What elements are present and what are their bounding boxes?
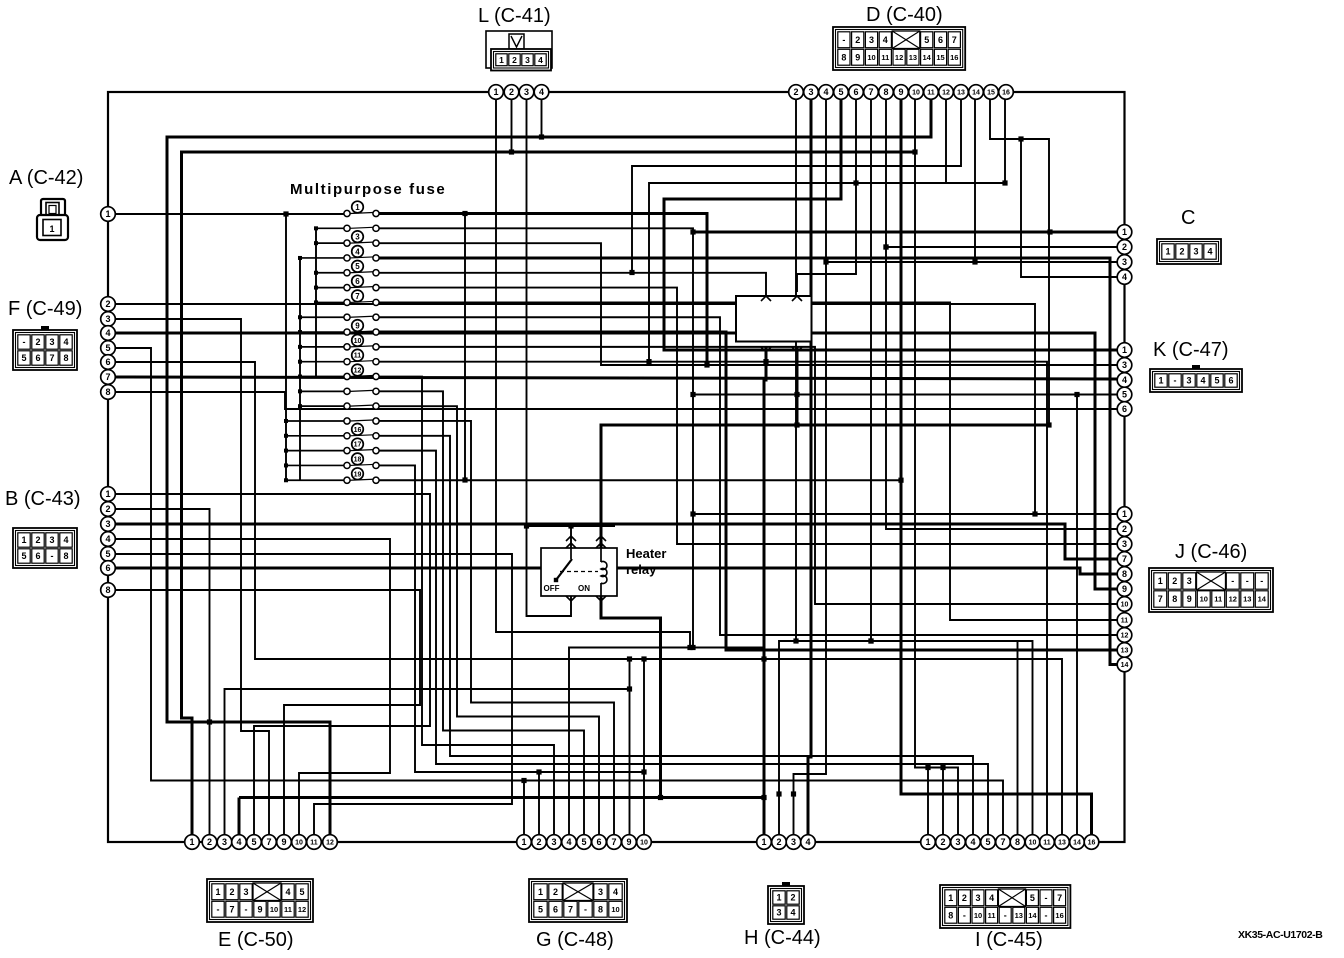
svg-text:1: 1 bbox=[1165, 247, 1170, 257]
svg-text:7: 7 bbox=[1158, 594, 1163, 604]
svg-text:4: 4 bbox=[1200, 376, 1205, 386]
svg-text:3: 3 bbox=[955, 837, 960, 847]
svg-text:10: 10 bbox=[354, 338, 362, 345]
svg-text:4: 4 bbox=[539, 87, 544, 97]
svg-text:16: 16 bbox=[354, 427, 362, 434]
svg-text:2: 2 bbox=[1179, 247, 1184, 257]
svg-text:-: - bbox=[584, 904, 587, 914]
svg-text:17: 17 bbox=[354, 442, 362, 449]
svg-text:6: 6 bbox=[105, 563, 110, 573]
svg-text:6: 6 bbox=[1228, 376, 1233, 386]
svg-text:3: 3 bbox=[1122, 257, 1127, 267]
svg-text:8: 8 bbox=[841, 52, 846, 62]
svg-text:1: 1 bbox=[1158, 576, 1163, 586]
svg-text:5: 5 bbox=[1214, 376, 1219, 386]
svg-text:18: 18 bbox=[354, 456, 362, 463]
svg-text:11: 11 bbox=[1214, 595, 1222, 604]
svg-text:1: 1 bbox=[493, 87, 498, 97]
svg-text:6: 6 bbox=[553, 904, 558, 914]
svg-text:1: 1 bbox=[215, 887, 220, 897]
svg-text:4: 4 bbox=[1122, 272, 1127, 282]
svg-text:6: 6 bbox=[938, 35, 943, 45]
svg-text:7: 7 bbox=[868, 87, 873, 97]
svg-text:G (C-48): G (C-48) bbox=[536, 929, 614, 951]
svg-text:14: 14 bbox=[1028, 911, 1037, 920]
svg-text:3: 3 bbox=[1122, 360, 1127, 370]
svg-text:2: 2 bbox=[105, 299, 110, 309]
svg-text:5: 5 bbox=[251, 837, 256, 847]
svg-text:1: 1 bbox=[776, 893, 781, 903]
svg-text:4: 4 bbox=[355, 247, 360, 256]
svg-text:10: 10 bbox=[1029, 840, 1037, 847]
svg-text:7: 7 bbox=[105, 372, 110, 382]
svg-text:7: 7 bbox=[1000, 837, 1005, 847]
svg-text:5: 5 bbox=[538, 904, 543, 914]
svg-text:3: 3 bbox=[105, 314, 110, 324]
svg-text:ON: ON bbox=[578, 584, 590, 593]
svg-text:8: 8 bbox=[1015, 837, 1020, 847]
svg-text:2: 2 bbox=[1122, 242, 1127, 252]
svg-text:12: 12 bbox=[942, 90, 950, 97]
svg-text:14: 14 bbox=[1258, 595, 1267, 604]
svg-text:2: 2 bbox=[35, 337, 40, 347]
svg-text:3: 3 bbox=[1122, 539, 1127, 549]
svg-text:10: 10 bbox=[912, 90, 920, 97]
svg-text:11: 11 bbox=[1043, 840, 1051, 847]
svg-text:5: 5 bbox=[1030, 893, 1035, 903]
svg-text:Multipurpose fuse: Multipurpose fuse bbox=[290, 181, 446, 198]
svg-text:11: 11 bbox=[1121, 618, 1129, 625]
svg-text:1: 1 bbox=[925, 837, 930, 847]
svg-text:A (C-42): A (C-42) bbox=[9, 167, 83, 189]
svg-text:10: 10 bbox=[974, 911, 982, 920]
svg-text:6: 6 bbox=[355, 277, 360, 286]
svg-text:3: 3 bbox=[551, 837, 556, 847]
svg-text:4: 4 bbox=[63, 535, 68, 545]
svg-text:16: 16 bbox=[950, 53, 958, 62]
svg-text:9: 9 bbox=[355, 321, 360, 330]
svg-text:2: 2 bbox=[509, 87, 514, 97]
svg-text:9: 9 bbox=[898, 87, 903, 97]
svg-text:5: 5 bbox=[581, 837, 586, 847]
svg-text:16: 16 bbox=[1088, 840, 1096, 847]
svg-text:2: 2 bbox=[776, 837, 781, 847]
svg-text:3: 3 bbox=[524, 87, 529, 97]
svg-text:2: 2 bbox=[229, 887, 234, 897]
svg-text:relay: relay bbox=[626, 562, 657, 577]
svg-text:2: 2 bbox=[1122, 524, 1127, 534]
svg-text:4: 4 bbox=[63, 337, 68, 347]
svg-text:5: 5 bbox=[985, 837, 990, 847]
svg-text:1: 1 bbox=[105, 209, 110, 219]
svg-text:9: 9 bbox=[855, 52, 860, 62]
svg-text:1: 1 bbox=[105, 489, 110, 499]
svg-text:3: 3 bbox=[105, 519, 110, 529]
svg-text:5: 5 bbox=[299, 887, 304, 897]
svg-text:2: 2 bbox=[536, 837, 541, 847]
svg-text:3: 3 bbox=[1187, 576, 1192, 586]
svg-text:9: 9 bbox=[1187, 594, 1192, 604]
svg-text:1: 1 bbox=[1122, 345, 1127, 355]
svg-text:5: 5 bbox=[105, 343, 110, 353]
svg-text:5: 5 bbox=[21, 551, 26, 561]
svg-text:2: 2 bbox=[512, 55, 517, 65]
svg-text:H (C-44): H (C-44) bbox=[744, 927, 821, 949]
svg-text:15: 15 bbox=[987, 90, 995, 97]
svg-text:5: 5 bbox=[21, 353, 26, 363]
svg-text:B (C-43): B (C-43) bbox=[5, 488, 81, 510]
svg-text:-: - bbox=[23, 337, 26, 347]
svg-text:8: 8 bbox=[105, 585, 110, 595]
svg-text:3: 3 bbox=[222, 837, 227, 847]
svg-text:2: 2 bbox=[790, 893, 795, 903]
svg-text:2: 2 bbox=[207, 837, 212, 847]
svg-text:14: 14 bbox=[972, 90, 980, 97]
svg-text:6: 6 bbox=[105, 357, 110, 367]
svg-text:4: 4 bbox=[285, 887, 290, 897]
svg-text:19: 19 bbox=[354, 471, 362, 478]
svg-text:2: 2 bbox=[962, 893, 967, 903]
svg-text:-: - bbox=[963, 910, 966, 920]
svg-text:7: 7 bbox=[1122, 554, 1127, 564]
svg-text:9: 9 bbox=[1122, 584, 1127, 594]
svg-text:J (C-46): J (C-46) bbox=[1175, 541, 1247, 563]
svg-text:7: 7 bbox=[49, 353, 54, 363]
svg-text:13: 13 bbox=[1015, 911, 1023, 920]
svg-text:3: 3 bbox=[808, 87, 813, 97]
svg-text:4: 4 bbox=[989, 893, 994, 903]
svg-text:L (C-41): L (C-41) bbox=[478, 5, 551, 27]
svg-text:7: 7 bbox=[611, 837, 616, 847]
svg-text:8: 8 bbox=[63, 551, 68, 561]
svg-text:OFF: OFF bbox=[544, 584, 560, 593]
svg-text:-: - bbox=[217, 904, 220, 914]
svg-text:4: 4 bbox=[1122, 375, 1127, 385]
svg-text:2: 2 bbox=[793, 87, 798, 97]
svg-text:-: - bbox=[1004, 910, 1007, 920]
svg-text:-: - bbox=[1231, 576, 1234, 586]
svg-text:8: 8 bbox=[1172, 594, 1177, 604]
svg-text:7: 7 bbox=[229, 904, 234, 914]
svg-text:-: - bbox=[245, 904, 248, 914]
svg-text:13: 13 bbox=[909, 53, 917, 62]
svg-text:12: 12 bbox=[298, 905, 306, 914]
svg-text:3: 3 bbox=[355, 233, 360, 242]
svg-text:3: 3 bbox=[869, 35, 874, 45]
svg-text:12: 12 bbox=[326, 840, 334, 847]
svg-text:1: 1 bbox=[761, 837, 766, 847]
svg-text:2: 2 bbox=[855, 35, 860, 45]
svg-text:XK35-AC-U1702-B: XK35-AC-U1702-B bbox=[1238, 929, 1323, 941]
svg-text:2: 2 bbox=[553, 887, 558, 897]
svg-text:4: 4 bbox=[883, 35, 888, 45]
svg-text:3: 3 bbox=[243, 887, 248, 897]
svg-text:10: 10 bbox=[1121, 602, 1129, 609]
svg-text:3: 3 bbox=[1186, 376, 1191, 386]
svg-text:13: 13 bbox=[1058, 840, 1066, 847]
svg-text:1: 1 bbox=[521, 837, 526, 847]
svg-text:10: 10 bbox=[867, 53, 875, 62]
svg-text:1: 1 bbox=[499, 55, 504, 65]
svg-text:3: 3 bbox=[49, 337, 54, 347]
svg-text:6: 6 bbox=[35, 551, 40, 561]
svg-text:2: 2 bbox=[35, 535, 40, 545]
svg-text:C: C bbox=[1181, 207, 1195, 229]
svg-text:8: 8 bbox=[948, 910, 953, 920]
svg-text:14: 14 bbox=[1073, 840, 1081, 847]
svg-text:2: 2 bbox=[940, 837, 945, 847]
svg-text:10: 10 bbox=[640, 840, 648, 847]
svg-text:15: 15 bbox=[936, 53, 944, 62]
svg-text:9: 9 bbox=[281, 837, 286, 847]
svg-text:7: 7 bbox=[952, 35, 957, 45]
svg-text:1: 1 bbox=[1122, 509, 1127, 519]
svg-text:7: 7 bbox=[355, 292, 360, 301]
svg-text:1: 1 bbox=[355, 203, 360, 212]
svg-text:9: 9 bbox=[257, 904, 262, 914]
svg-text:7: 7 bbox=[266, 837, 271, 847]
svg-text:8: 8 bbox=[883, 87, 888, 97]
svg-text:-: - bbox=[1045, 910, 1048, 920]
svg-text:4: 4 bbox=[790, 908, 795, 918]
svg-text:5: 5 bbox=[1122, 390, 1127, 400]
svg-text:D (C-40): D (C-40) bbox=[866, 4, 943, 26]
svg-text:1: 1 bbox=[21, 535, 26, 545]
svg-text:-: - bbox=[51, 551, 54, 561]
svg-text:-: - bbox=[1260, 576, 1263, 586]
svg-text:6: 6 bbox=[853, 87, 858, 97]
svg-text:-: - bbox=[1246, 576, 1249, 586]
svg-text:7: 7 bbox=[1057, 893, 1062, 903]
svg-text:K (C-47): K (C-47) bbox=[1153, 339, 1229, 361]
svg-text:5: 5 bbox=[105, 549, 110, 559]
svg-text:12: 12 bbox=[895, 53, 903, 62]
svg-text:-: - bbox=[1045, 893, 1048, 903]
svg-text:4: 4 bbox=[970, 837, 975, 847]
svg-text:11: 11 bbox=[927, 90, 935, 97]
svg-text:F (C-49): F (C-49) bbox=[8, 298, 82, 320]
svg-text:4: 4 bbox=[805, 837, 810, 847]
svg-text:Heater: Heater bbox=[626, 546, 666, 561]
svg-text:4: 4 bbox=[823, 87, 828, 97]
svg-text:4: 4 bbox=[236, 837, 241, 847]
svg-text:14: 14 bbox=[1121, 662, 1129, 669]
svg-text:-: - bbox=[842, 35, 845, 45]
svg-text:3: 3 bbox=[49, 535, 54, 545]
svg-text:5: 5 bbox=[924, 35, 929, 45]
svg-text:8: 8 bbox=[598, 904, 603, 914]
svg-text:3: 3 bbox=[598, 887, 603, 897]
svg-text:5: 5 bbox=[355, 262, 360, 271]
svg-text:3: 3 bbox=[791, 837, 796, 847]
svg-text:14: 14 bbox=[923, 53, 932, 62]
svg-text:1: 1 bbox=[1122, 227, 1127, 237]
svg-text:11: 11 bbox=[988, 911, 996, 920]
svg-text:-: - bbox=[1174, 376, 1177, 386]
svg-text:3: 3 bbox=[776, 908, 781, 918]
svg-text:12: 12 bbox=[1229, 595, 1237, 604]
svg-text:4: 4 bbox=[1207, 247, 1212, 257]
svg-text:1: 1 bbox=[49, 224, 54, 234]
svg-text:12: 12 bbox=[354, 368, 362, 375]
svg-text:16: 16 bbox=[1055, 911, 1063, 920]
svg-text:I (C-45): I (C-45) bbox=[975, 929, 1043, 951]
svg-text:8: 8 bbox=[63, 353, 68, 363]
svg-text:11: 11 bbox=[310, 840, 318, 847]
svg-text:1: 1 bbox=[538, 887, 543, 897]
svg-text:8: 8 bbox=[1122, 569, 1127, 579]
svg-text:2: 2 bbox=[105, 504, 110, 514]
svg-text:10: 10 bbox=[270, 905, 278, 914]
svg-text:11: 11 bbox=[284, 905, 292, 914]
svg-text:9: 9 bbox=[626, 837, 631, 847]
svg-text:6: 6 bbox=[1122, 404, 1127, 414]
svg-text:13: 13 bbox=[957, 90, 965, 97]
svg-text:4: 4 bbox=[538, 55, 543, 65]
svg-text:6: 6 bbox=[35, 353, 40, 363]
svg-text:E (C-50): E (C-50) bbox=[218, 929, 294, 951]
svg-text:8: 8 bbox=[105, 387, 110, 397]
svg-text:4: 4 bbox=[613, 887, 618, 897]
svg-text:3: 3 bbox=[525, 55, 530, 65]
svg-text:3: 3 bbox=[1193, 247, 1198, 257]
svg-text:16: 16 bbox=[1002, 90, 1010, 97]
svg-text:11: 11 bbox=[881, 53, 889, 62]
svg-text:13: 13 bbox=[1121, 648, 1129, 655]
svg-text:3: 3 bbox=[975, 893, 980, 903]
svg-text:12: 12 bbox=[1121, 633, 1129, 640]
svg-text:4: 4 bbox=[105, 534, 110, 544]
svg-text:2: 2 bbox=[1172, 576, 1177, 586]
svg-text:13: 13 bbox=[1243, 595, 1251, 604]
svg-text:4: 4 bbox=[566, 837, 571, 847]
svg-text:10: 10 bbox=[1200, 595, 1208, 604]
svg-text:6: 6 bbox=[596, 837, 601, 847]
svg-text:10: 10 bbox=[295, 840, 303, 847]
svg-text:10: 10 bbox=[611, 905, 619, 914]
svg-text:4: 4 bbox=[105, 328, 110, 338]
svg-text:11: 11 bbox=[354, 353, 362, 360]
svg-text:7: 7 bbox=[568, 904, 573, 914]
svg-text:1: 1 bbox=[948, 893, 953, 903]
svg-text:1: 1 bbox=[189, 837, 194, 847]
svg-text:1: 1 bbox=[1158, 376, 1163, 386]
svg-text:5: 5 bbox=[838, 87, 843, 97]
